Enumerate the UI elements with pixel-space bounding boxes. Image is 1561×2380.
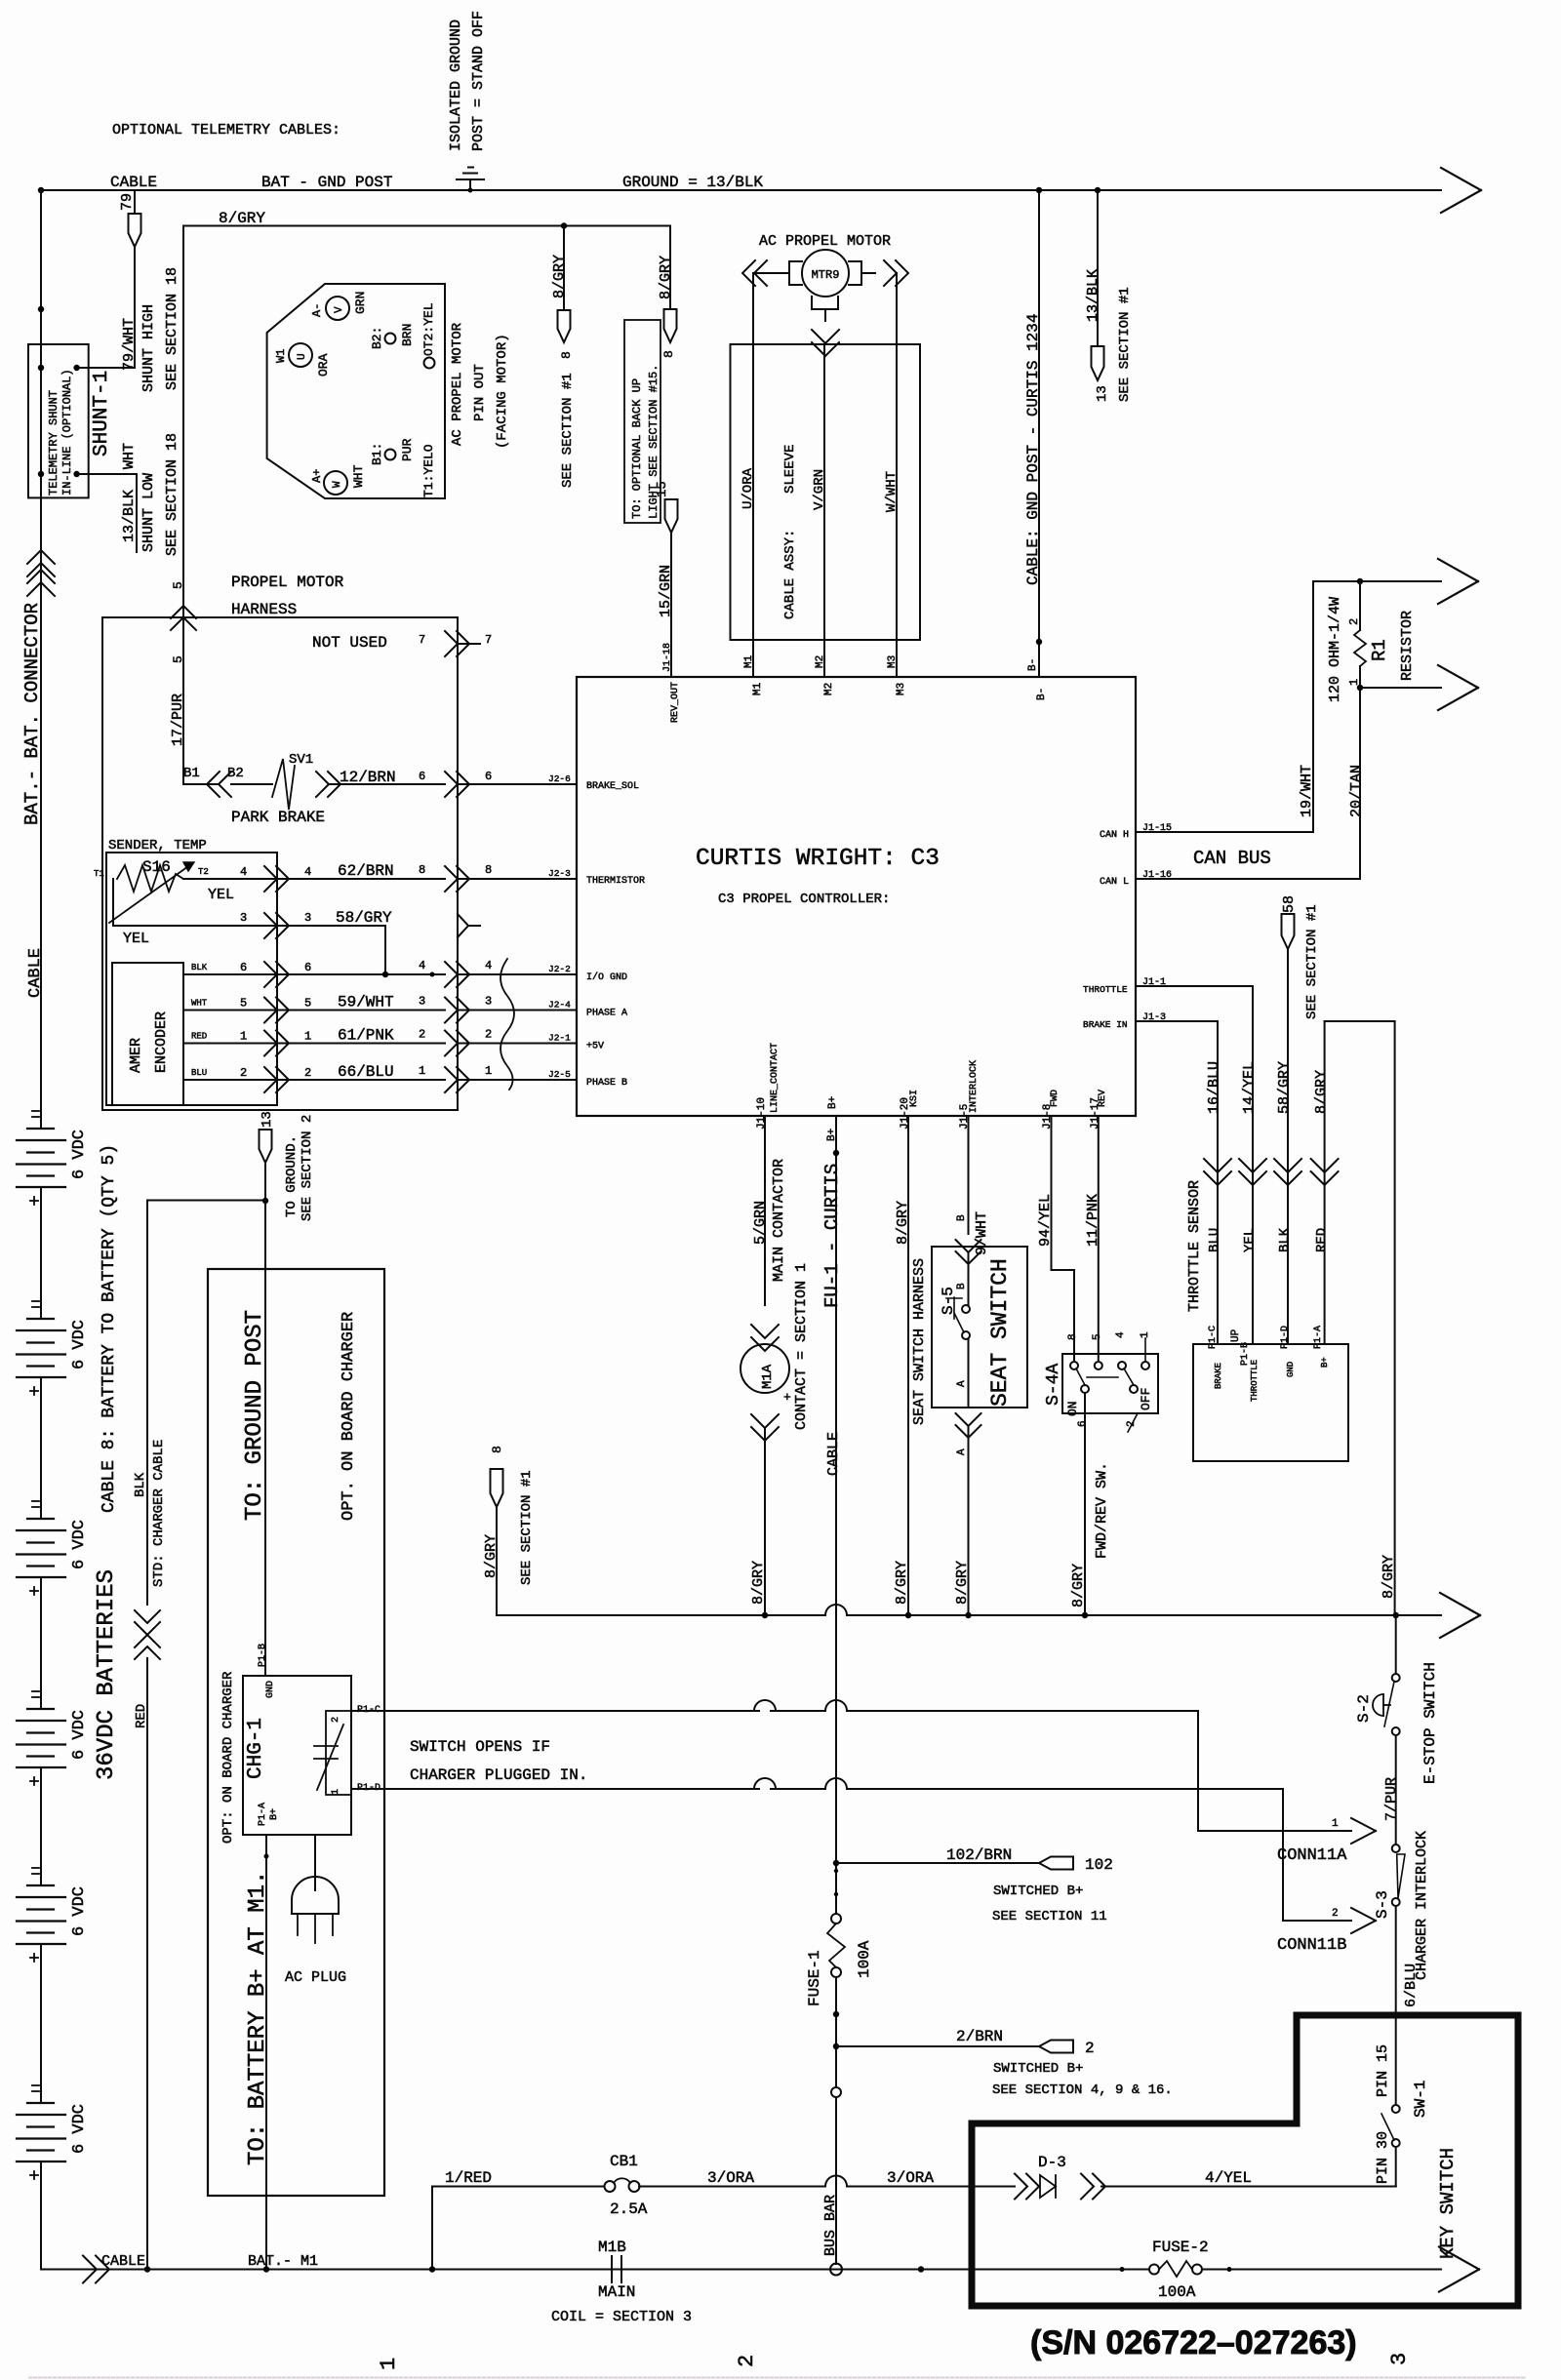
svg-text:CHARGER INTERLOCK: CHARGER INTERLOCK xyxy=(1414,1831,1430,1980)
svg-text:MAIN: MAIN xyxy=(598,2283,635,2301)
svg-text:J1-18: J1-18 xyxy=(662,643,673,672)
svg-text:BUS BAR: BUS BAR xyxy=(822,2195,839,2256)
svg-text:66/BLU: 66/BLU xyxy=(338,1063,394,1081)
svg-text:CONTACT = SECTION 1: CONTACT = SECTION 1 xyxy=(793,1263,810,1430)
svg-text:M2: M2 xyxy=(815,655,826,668)
svg-text:A-: A- xyxy=(310,303,324,317)
svg-text:SEE SECTION #1: SEE SECTION #1 xyxy=(560,373,576,488)
svg-text:6: 6 xyxy=(1077,1420,1089,1427)
svg-text:ON: ON xyxy=(1065,1401,1080,1416)
svg-text:FWD: FWD xyxy=(1050,1090,1061,1107)
svg-text:PIN 30: PIN 30 xyxy=(1375,2131,1391,2184)
svg-text:P1-D: P1-D xyxy=(1280,1326,1291,1349)
svg-text:1: 1 xyxy=(1347,679,1361,686)
svg-text:7: 7 xyxy=(485,633,492,647)
svg-text:GROUND = 13/BLK: GROUND = 13/BLK xyxy=(622,174,763,191)
svg-text:102: 102 xyxy=(1085,1856,1113,1874)
svg-text:BAT.- BAT. CONNECTOR: BAT.- BAT. CONNECTOR xyxy=(21,603,43,825)
svg-text:CAN H: CAN H xyxy=(1100,830,1129,841)
svg-text:LINE_CONTACT: LINE_CONTACT xyxy=(770,1043,780,1113)
svg-text:S-3: S-3 xyxy=(1374,1890,1391,1919)
svg-text:D-3: D-3 xyxy=(1038,2154,1066,2171)
svg-text:B+: B+ xyxy=(269,1808,280,1820)
svg-text:P1-A: P1-A xyxy=(258,1803,268,1826)
svg-text:THROTTLE: THROTTLE xyxy=(1083,984,1128,995)
svg-text:B-: B- xyxy=(1036,688,1048,700)
svg-text:B+: B+ xyxy=(827,1096,839,1109)
svg-text:8/GRY: 8/GRY xyxy=(658,256,674,299)
svg-text:THROTTLE: THROTTLE xyxy=(1250,1360,1260,1402)
svg-text:OFF: OFF xyxy=(1139,1388,1153,1410)
svg-text:SWITCHED B+: SWITCHED B+ xyxy=(993,1884,1083,1899)
svg-text:58: 58 xyxy=(1281,895,1298,913)
svg-text:PHASE A: PHASE A xyxy=(586,1009,627,1019)
svg-text:3: 3 xyxy=(485,995,492,1009)
svg-text:J1-16: J1-16 xyxy=(1142,870,1172,881)
svg-text:OPT. ON BOARD CHARGER: OPT. ON BOARD CHARGER xyxy=(340,1312,358,1521)
svg-text:V: V xyxy=(334,306,345,313)
svg-text:T2: T2 xyxy=(198,867,209,877)
svg-text:8: 8 xyxy=(419,863,425,877)
svg-text:GND: GND xyxy=(265,1681,276,1698)
svg-text:120 OHM-1/4W: 120 OHM-1/4W xyxy=(1327,597,1343,702)
svg-text:CHG-1: CHG-1 xyxy=(245,1718,267,1779)
svg-text:POST = STAND OFF: POST = STAND OFF xyxy=(470,11,487,151)
svg-text:BAT - GND POST: BAT - GND POST xyxy=(261,174,392,191)
svg-text:PIN OUT: PIN OUT xyxy=(472,364,488,421)
svg-text:PHASE B: PHASE B xyxy=(586,1078,627,1089)
svg-text:I/O GND: I/O GND xyxy=(586,972,627,983)
svg-text:6/BLU: 6/BLU xyxy=(1403,1963,1420,2007)
svg-text:2: 2 xyxy=(240,1066,247,1080)
svg-text:CABLE: CABLE xyxy=(101,2253,145,2270)
svg-text:U: U xyxy=(297,353,308,360)
svg-text:7/PUR: 7/PUR xyxy=(1383,1777,1400,1821)
svg-text:T1: T1 xyxy=(94,869,104,879)
svg-text:9/WHT: 9/WHT xyxy=(974,1211,990,1255)
svg-text:J2-2: J2-2 xyxy=(548,964,571,974)
svg-text:8/GRY: 8/GRY xyxy=(894,1561,910,1605)
svg-text:20/TAN: 20/TAN xyxy=(1348,765,1365,817)
svg-text:AMER: AMER xyxy=(128,1038,144,1073)
svg-text:J1-10: J1-10 xyxy=(756,1097,768,1130)
svg-text:8/GRY: 8/GRY xyxy=(1070,1564,1087,1607)
svg-text:FU-1 - CURTIS: FU-1 - CURTIS xyxy=(821,1164,843,1308)
svg-text:+: + xyxy=(783,1390,791,1405)
svg-text:STD: CHARGER CABLE: STD: CHARGER CABLE xyxy=(151,1440,167,1587)
svg-text:6 VDC: 6 VDC xyxy=(70,1520,89,1569)
svg-text:2: 2 xyxy=(1085,2040,1095,2057)
svg-text:2/BRN: 2/BRN xyxy=(956,2028,1003,2045)
svg-text:W/WHT: W/WHT xyxy=(884,471,900,512)
svg-text:TELEMETRY SHUNT: TELEMETRY SHUNT xyxy=(47,390,60,496)
svg-text:INTERLOCK: INTERLOCK xyxy=(969,1060,980,1113)
svg-text:6: 6 xyxy=(419,770,425,783)
svg-text:6: 6 xyxy=(485,770,492,783)
svg-text:+5V: +5V xyxy=(586,1042,604,1052)
svg-text:(S/N 026722–027263): (S/N 026722–027263) xyxy=(1030,2324,1357,2361)
svg-text:M1A: M1A xyxy=(760,1364,776,1389)
svg-text:4: 4 xyxy=(1115,1331,1127,1338)
svg-text:ORA: ORA xyxy=(316,353,331,377)
svg-text:8: 8 xyxy=(559,351,574,359)
svg-text:YEL: YEL xyxy=(208,887,234,903)
svg-text:3/ORA: 3/ORA xyxy=(707,2169,754,2187)
svg-text:2: 2 xyxy=(304,1066,311,1080)
svg-text:SEE SECTION 4, 9 & 16.: SEE SECTION 4, 9 & 16. xyxy=(992,2082,1173,2098)
svg-text:3: 3 xyxy=(240,911,247,925)
svg-text:SEE SECTION 18: SEE SECTION 18 xyxy=(164,433,180,556)
svg-text:TO: OPTIONAL BACK UP: TO: OPTIONAL BACK UP xyxy=(630,378,644,519)
svg-text:1: 1 xyxy=(1140,1331,1151,1338)
svg-text:79/WHT: 79/WHT xyxy=(121,318,138,371)
svg-text:SEE SECTION #1: SEE SECTION #1 xyxy=(519,1470,535,1585)
svg-text:M1B: M1B xyxy=(598,2239,626,2256)
svg-text:AC PLUG: AC PLUG xyxy=(285,1969,346,1986)
svg-text:CB1: CB1 xyxy=(610,2153,638,2170)
svg-text:2: 2 xyxy=(419,1028,425,1042)
svg-text:UP: UP xyxy=(1230,1329,1242,1342)
svg-text:THROTTLE SENSOR: THROTTLE SENSOR xyxy=(1186,1180,1203,1312)
svg-text:A: A xyxy=(956,1448,968,1455)
svg-text:CABLE: CABLE xyxy=(26,948,45,998)
svg-text:BLK: BLK xyxy=(133,1472,148,1497)
svg-text:J2-5: J2-5 xyxy=(548,1069,571,1080)
svg-text:5: 5 xyxy=(304,997,311,1011)
svg-text:12/BRN: 12/BRN xyxy=(340,769,396,786)
svg-text:6 VDC: 6 VDC xyxy=(70,1710,89,1760)
svg-text:M3: M3 xyxy=(896,683,907,695)
svg-text:B1: B1 xyxy=(183,766,200,781)
svg-text:8: 8 xyxy=(490,1446,504,1453)
svg-text:REV: REV xyxy=(1098,1090,1108,1107)
svg-text:1: 1 xyxy=(1332,1818,1339,1830)
svg-text:6 VDC: 6 VDC xyxy=(70,1130,89,1179)
svg-text:SV1: SV1 xyxy=(289,752,313,768)
svg-text:58/GRY: 58/GRY xyxy=(1276,1061,1293,1114)
svg-text:J1-3: J1-3 xyxy=(1142,1012,1166,1023)
svg-text:2.5A: 2.5A xyxy=(610,2201,648,2218)
svg-text:S-2: S-2 xyxy=(1355,1694,1373,1723)
svg-text:B+: B+ xyxy=(1320,1357,1330,1368)
svg-text:SWITCHED B+: SWITCHED B+ xyxy=(993,2061,1083,2077)
svg-text:FUSE-1: FUSE-1 xyxy=(806,1950,823,2006)
svg-text:SEE SECTION 18: SEE SECTION 18 xyxy=(164,267,180,390)
svg-text:YEL: YEL xyxy=(123,931,149,947)
svg-text:PARK BRAKE: PARK BRAKE xyxy=(231,809,325,826)
svg-text:SEE SECTION 2: SEE SECTION 2 xyxy=(300,1115,315,1221)
svg-text:YEL: YEL xyxy=(1242,1228,1258,1252)
svg-text:THERMISTOR: THERMISTOR xyxy=(586,876,645,887)
svg-text:1: 1 xyxy=(240,1030,247,1044)
svg-text:SW-1: SW-1 xyxy=(1412,2081,1429,2118)
svg-text:BRAKE_SOL: BRAKE_SOL xyxy=(586,781,639,792)
svg-text:SEE SECTION #1: SEE SECTION #1 xyxy=(1304,904,1320,1019)
svg-text:SHUNT LOW: SHUNT LOW xyxy=(140,473,157,552)
svg-text:RESISTOR: RESISTOR xyxy=(1399,611,1416,681)
svg-text:36VDC BATTERIES: 36VDC BATTERIES xyxy=(94,1569,120,1780)
svg-text:J2-4: J2-4 xyxy=(548,1000,571,1011)
svg-text:6 VDC: 6 VDC xyxy=(70,1886,89,1936)
svg-text:5/GRN: 5/GRN xyxy=(752,1201,769,1245)
svg-text:8/GRY: 8/GRY xyxy=(954,1561,971,1605)
svg-text:CAN BUS: CAN BUS xyxy=(1193,848,1271,869)
svg-text:58/GRY: 58/GRY xyxy=(336,909,392,927)
svg-text:KEY SWITCH: KEY SWITCH xyxy=(1437,2148,1459,2259)
svg-text:M1: M1 xyxy=(752,682,764,695)
svg-text:2: 2 xyxy=(485,1028,492,1042)
svg-text:79: 79 xyxy=(119,193,136,211)
svg-text:8/GRY: 8/GRY xyxy=(895,1201,911,1245)
svg-text:J1-15: J1-15 xyxy=(1142,823,1172,834)
svg-text:6: 6 xyxy=(304,961,311,974)
svg-text:5: 5 xyxy=(171,581,185,589)
svg-text:19/WHT: 19/WHT xyxy=(1299,765,1315,817)
svg-text:TO: GROUND POST: TO: GROUND POST xyxy=(242,1310,268,1521)
svg-text:TO GROUND.: TO GROUND. xyxy=(284,1135,300,1217)
svg-text:WHT: WHT xyxy=(191,999,208,1009)
svg-text:13/BLK: 13/BLK xyxy=(1085,269,1101,322)
svg-text:SENDER, TEMP: SENDER, TEMP xyxy=(108,838,207,853)
svg-text:B+: B+ xyxy=(826,1129,838,1141)
svg-text:COIL = SECTION 3: COIL = SECTION 3 xyxy=(551,2309,692,2325)
svg-text:8/GRY: 8/GRY xyxy=(483,1534,500,1578)
svg-text:R1: R1 xyxy=(1369,639,1390,661)
svg-text:4: 4 xyxy=(240,865,247,879)
svg-text:8/GRY: 8/GRY xyxy=(750,1561,767,1605)
svg-text:8: 8 xyxy=(661,350,676,358)
svg-text:GRN: GRN xyxy=(353,292,368,314)
svg-text:OPTIONAL TELEMETRY CABLES:: OPTIONAL TELEMETRY CABLES: xyxy=(112,122,340,139)
svg-text:SEAT SWITCH HARNESS: SEAT SWITCH HARNESS xyxy=(911,1258,928,1425)
svg-text:94/YEL: 94/YEL xyxy=(1037,1194,1054,1247)
svg-text:1: 1 xyxy=(304,1030,311,1044)
svg-text:SLEEVE: SLEEVE xyxy=(782,445,798,494)
svg-text:PIN 15: PIN 15 xyxy=(1375,2044,1391,2097)
svg-text:2: 2 xyxy=(331,1717,341,1723)
svg-text:PROPEL MOTOR: PROPEL MOTOR xyxy=(231,574,344,591)
svg-text:J1-1: J1-1 xyxy=(1142,977,1166,988)
svg-text:61/PNK: 61/PNK xyxy=(338,1027,394,1045)
svg-text:6: 6 xyxy=(240,961,247,974)
svg-text:OPT: ON BOARD CHARGER: OPT: ON BOARD CHARGER xyxy=(220,1671,236,1844)
svg-text:SEAT SWITCH: SEAT SWITCH xyxy=(987,1258,1013,1407)
svg-text:TO: BATTERY B+ AT M1.: TO: BATTERY B+ AT M1. xyxy=(245,1871,271,2165)
svg-text:CABLE ASSY:: CABLE ASSY: xyxy=(782,530,798,619)
svg-text:P1-A: P1-A xyxy=(1313,1326,1324,1349)
svg-text:15/GRN: 15/GRN xyxy=(658,565,674,617)
svg-text:RED: RED xyxy=(134,1704,149,1728)
svg-text:SWITCH OPENS IF: SWITCH OPENS IF xyxy=(410,1738,550,1756)
svg-text:2: 2 xyxy=(735,2355,759,2367)
svg-text:ISOLATED GROUND: ISOLATED GROUND xyxy=(448,20,464,151)
svg-text:V/GRN: V/GRN xyxy=(812,469,827,510)
svg-text:1/RED: 1/RED xyxy=(445,2169,492,2187)
svg-text:BRAKE IN: BRAKE IN xyxy=(1083,1019,1128,1030)
svg-text:KSI: KSI xyxy=(909,1090,920,1107)
svg-text:S-4A: S-4A xyxy=(1044,1364,1063,1406)
svg-text:SHUNT-1: SHUNT-1 xyxy=(91,371,113,456)
svg-text:4: 4 xyxy=(419,959,425,972)
svg-text:MAIN CONTACTOR: MAIN CONTACTOR xyxy=(771,1159,787,1282)
svg-text:1: 1 xyxy=(485,1064,492,1078)
svg-text:CHARGER PLUGGED IN.: CHARGER PLUGGED IN. xyxy=(410,1766,587,1784)
svg-text:BRAKE: BRAKE xyxy=(1214,1363,1223,1389)
svg-text:4: 4 xyxy=(485,959,492,972)
svg-text:B-: B- xyxy=(1027,658,1039,671)
svg-text:MTR9: MTR9 xyxy=(812,268,840,282)
svg-text:AC PROPEL MOTOR: AC PROPEL MOTOR xyxy=(759,233,891,250)
svg-text:13/BLK: 13/BLK xyxy=(121,490,138,542)
svg-text:100A: 100A xyxy=(1158,2283,1196,2301)
svg-text:59/WHT: 59/WHT xyxy=(338,994,394,1011)
svg-text:1: 1 xyxy=(331,1789,341,1795)
svg-text:FUSE-2: FUSE-2 xyxy=(1152,2239,1209,2256)
svg-text:SEE SECTION 11: SEE SECTION 11 xyxy=(992,1909,1107,1924)
svg-text:GND: GND xyxy=(1286,1362,1296,1377)
svg-text:2: 2 xyxy=(1332,1908,1339,1920)
svg-text:62/BRN: 62/BRN xyxy=(338,862,394,880)
svg-text:M1: M1 xyxy=(743,654,755,668)
svg-text:M3: M3 xyxy=(887,655,899,668)
svg-text:PUR: PUR xyxy=(400,438,415,461)
svg-text:8: 8 xyxy=(1067,1333,1079,1340)
svg-text:W1: W1 xyxy=(274,349,288,363)
svg-text:2: 2 xyxy=(1347,618,1361,625)
svg-text:1: 1 xyxy=(377,2358,401,2370)
svg-text:IN-LINE (OPTIONAL): IN-LINE (OPTIONAL) xyxy=(60,369,74,496)
svg-text:T1:YELO: T1:YELO xyxy=(421,444,436,497)
svg-text:RED: RED xyxy=(191,1032,207,1042)
svg-text:CURTIS WRIGHT: C3: CURTIS WRIGHT: C3 xyxy=(696,846,940,872)
svg-text:HARNESS: HARNESS xyxy=(231,601,297,618)
svg-text:(FACING MOTOR): (FACING MOTOR) xyxy=(495,334,510,449)
svg-text:7: 7 xyxy=(419,633,425,647)
svg-text:15: 15 xyxy=(655,481,670,497)
svg-text:3: 3 xyxy=(304,911,311,925)
svg-text:A+: A+ xyxy=(310,469,324,483)
svg-text:5: 5 xyxy=(240,997,247,1011)
svg-text:8/GRY: 8/GRY xyxy=(1313,1070,1330,1114)
svg-text:CABLE: GND POST - CURTIS 1234: CABLE: GND POST - CURTIS 1234 xyxy=(1024,314,1042,585)
svg-text:NOT USED: NOT USED xyxy=(312,634,387,652)
svg-text:5: 5 xyxy=(1092,1333,1103,1340)
svg-text:CONN11A: CONN11A xyxy=(1277,1846,1347,1865)
svg-text:SHUNT HIGH: SHUNT HIGH xyxy=(140,304,157,392)
svg-text:4/YEL: 4/YEL xyxy=(1205,2169,1252,2187)
svg-text:C3 PROPEL CONTROLLER:: C3 PROPEL CONTROLLER: xyxy=(718,892,890,907)
svg-text:8/GRY: 8/GRY xyxy=(1381,1555,1397,1599)
svg-text:6 VDC: 6 VDC xyxy=(70,2104,89,2154)
svg-text:BLK: BLK xyxy=(1277,1227,1293,1252)
svg-text:CABLE: CABLE xyxy=(110,174,157,191)
svg-text:A: A xyxy=(956,1380,968,1387)
svg-text:3/ORA: 3/ORA xyxy=(887,2169,934,2187)
svg-text:AC PROPEL MOTOR: AC PROPEL MOTOR xyxy=(450,322,465,446)
svg-text:OT2:YEL: OT2:YEL xyxy=(421,302,436,356)
svg-text:P1-C: P1-C xyxy=(1208,1326,1219,1349)
svg-text:S-5: S-5 xyxy=(940,1287,957,1315)
svg-text:FWD/REV SW.: FWD/REV SW. xyxy=(1094,1462,1110,1559)
svg-text:CABLE: CABLE xyxy=(825,1432,842,1476)
svg-text:1: 1 xyxy=(419,1064,425,1078)
svg-text:BLU: BLU xyxy=(1207,1228,1222,1252)
svg-text:RED: RED xyxy=(1314,1228,1330,1252)
svg-text:CAN L: CAN L xyxy=(1100,877,1129,888)
svg-text:16/BLU: 16/BLU xyxy=(1206,1061,1222,1114)
svg-text:13: 13 xyxy=(1095,385,1110,402)
svg-text:6 VDC: 6 VDC xyxy=(70,1320,89,1369)
svg-text:J2-1: J2-1 xyxy=(548,1033,571,1044)
svg-text:BAT.- M1: BAT.- M1 xyxy=(248,2253,318,2270)
svg-text:3: 3 xyxy=(1387,2353,1412,2365)
svg-text:102/BRN: 102/BRN xyxy=(946,1846,1012,1864)
svg-text:8: 8 xyxy=(485,863,492,877)
svg-text:8/GRY: 8/GRY xyxy=(219,210,265,227)
svg-text:M2: M2 xyxy=(823,683,835,695)
svg-text:17/PUR: 17/PUR xyxy=(170,694,186,746)
svg-text:ENCODER: ENCODER xyxy=(153,1011,170,1073)
svg-text:11/PNK: 11/PNK xyxy=(1085,1194,1101,1247)
svg-text:B: B xyxy=(956,1214,968,1221)
svg-text:U/ORA: U/ORA xyxy=(740,467,756,509)
svg-text:P1-B: P1-B xyxy=(258,1644,268,1667)
svg-text:4: 4 xyxy=(304,865,311,879)
svg-text:B: B xyxy=(956,1283,968,1289)
svg-text:8/GRY: 8/GRY xyxy=(551,255,568,298)
svg-text:CABLE 8: BATTERY TO BATTERY (Q: CABLE 8: BATTERY TO BATTERY (QTY 5) xyxy=(100,1144,119,1513)
svg-text:WHT: WHT xyxy=(121,443,138,469)
svg-text:100A: 100A xyxy=(856,1940,873,1978)
svg-text:J2-3: J2-3 xyxy=(548,868,571,879)
svg-text:SEE SECTION #1: SEE SECTION #1 xyxy=(1117,287,1133,402)
svg-text:CONN11B: CONN11B xyxy=(1277,1936,1346,1955)
svg-text:E-STOP SWITCH: E-STOP SWITCH xyxy=(1421,1662,1439,1784)
svg-text:WHT: WHT xyxy=(351,464,366,488)
svg-text:REV_OUT: REV_OUT xyxy=(670,682,681,723)
svg-text:BLU: BLU xyxy=(191,1068,207,1078)
svg-text:J2-6: J2-6 xyxy=(548,773,571,784)
svg-text:BRN: BRN xyxy=(400,324,415,346)
svg-text:B1:: B1: xyxy=(370,443,384,465)
svg-text:13: 13 xyxy=(260,1111,275,1128)
svg-text:W: W xyxy=(332,481,343,488)
svg-text:3: 3 xyxy=(419,995,425,1009)
svg-text:B2:: B2: xyxy=(370,327,384,349)
svg-text:BLK: BLK xyxy=(191,963,208,972)
svg-text:14/YEL: 14/YEL xyxy=(1241,1061,1258,1114)
